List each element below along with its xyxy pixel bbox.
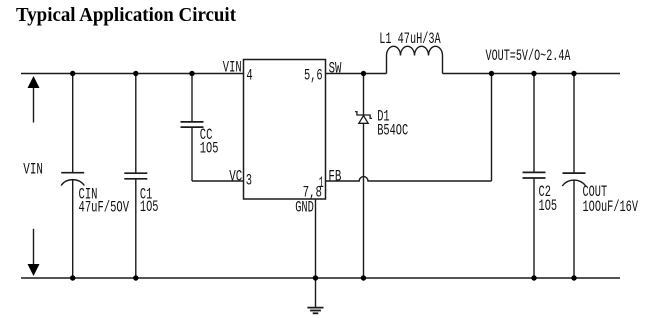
capacitor C2 [523,74,546,279]
wire GND pin down [315,199,317,307]
capacitor CIN [61,74,84,279]
wire FB riser to VOUT [491,74,493,182]
svg-text:GND: GND [295,198,314,216]
capacitor CC [181,74,204,182]
wire diode branch vertical [363,74,365,116]
ground [307,308,323,314]
svg-text:47uF/5OV: 47uF/5OV [79,198,130,216]
svg-text:1OOuF/16V: 1OOuF/16V [583,198,639,216]
wire bottom ground rail [21,277,620,279]
svg-text:VIN: VIN [223,59,242,77]
svg-text:FB: FB [328,168,341,186]
svg-text:VOUT=5V/O~2.4A: VOUT=5V/O~2.4A [486,47,571,65]
wire VC pin to CC [192,180,244,182]
svg-text:VIN: VIN [23,160,43,178]
diode D1 schottky [355,112,372,124]
VIN up arrow [28,76,40,123]
svg-text:Typical Application Circuit: Typical Application Circuit [16,5,236,26]
svg-text:B54OC: B54OC [377,122,408,140]
junction nodes top rail [70,71,577,76]
wire FB run with hop over diode leg [326,177,492,181]
svg-text:SW: SW [329,60,342,78]
svg-text:1O5: 1O5 [539,197,558,215]
svg-text:5,6: 5,6 [304,66,323,84]
svg-text:3: 3 [246,171,252,189]
VIN down arrow [28,229,40,276]
capacitor C1 [124,74,147,279]
svg-text:L1 47uH/3A: L1 47uH/3A [379,30,441,48]
svg-text:1O5: 1O5 [200,139,219,157]
svg-text:4: 4 [246,67,252,85]
wire SW rail segment [326,73,387,75]
svg-text:1O5: 1O5 [140,198,159,216]
junction nodes bottom rail [70,275,577,280]
svg-text:VC: VC [229,167,242,185]
inductor L1 [387,46,443,73]
op-amp U1 regulator box [244,60,326,200]
capacitor COUT [562,74,585,279]
wire inductor-to-VOUT rail [443,73,621,75]
wire top input rail [21,73,244,75]
